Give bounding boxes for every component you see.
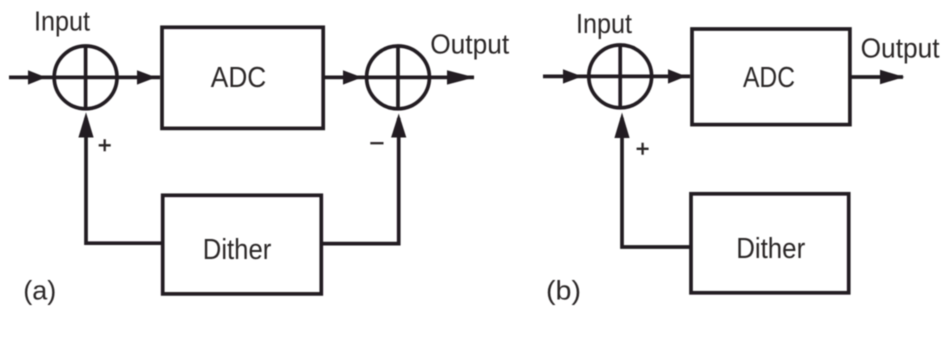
svg-text:(a): (a)	[23, 276, 56, 306]
svg-text:Input: Input	[576, 8, 632, 39]
svg-text:Input: Input	[34, 6, 90, 37]
svg-text:Dither: Dither	[203, 234, 272, 266]
svg-text:(b): (b)	[546, 276, 581, 306]
svg-text:Output: Output	[430, 29, 509, 60]
svg-text:Dither: Dither	[736, 233, 805, 265]
svg-text:Output: Output	[861, 32, 940, 63]
svg-text:ADC: ADC	[743, 62, 795, 94]
svg-text:ADC: ADC	[211, 62, 266, 94]
